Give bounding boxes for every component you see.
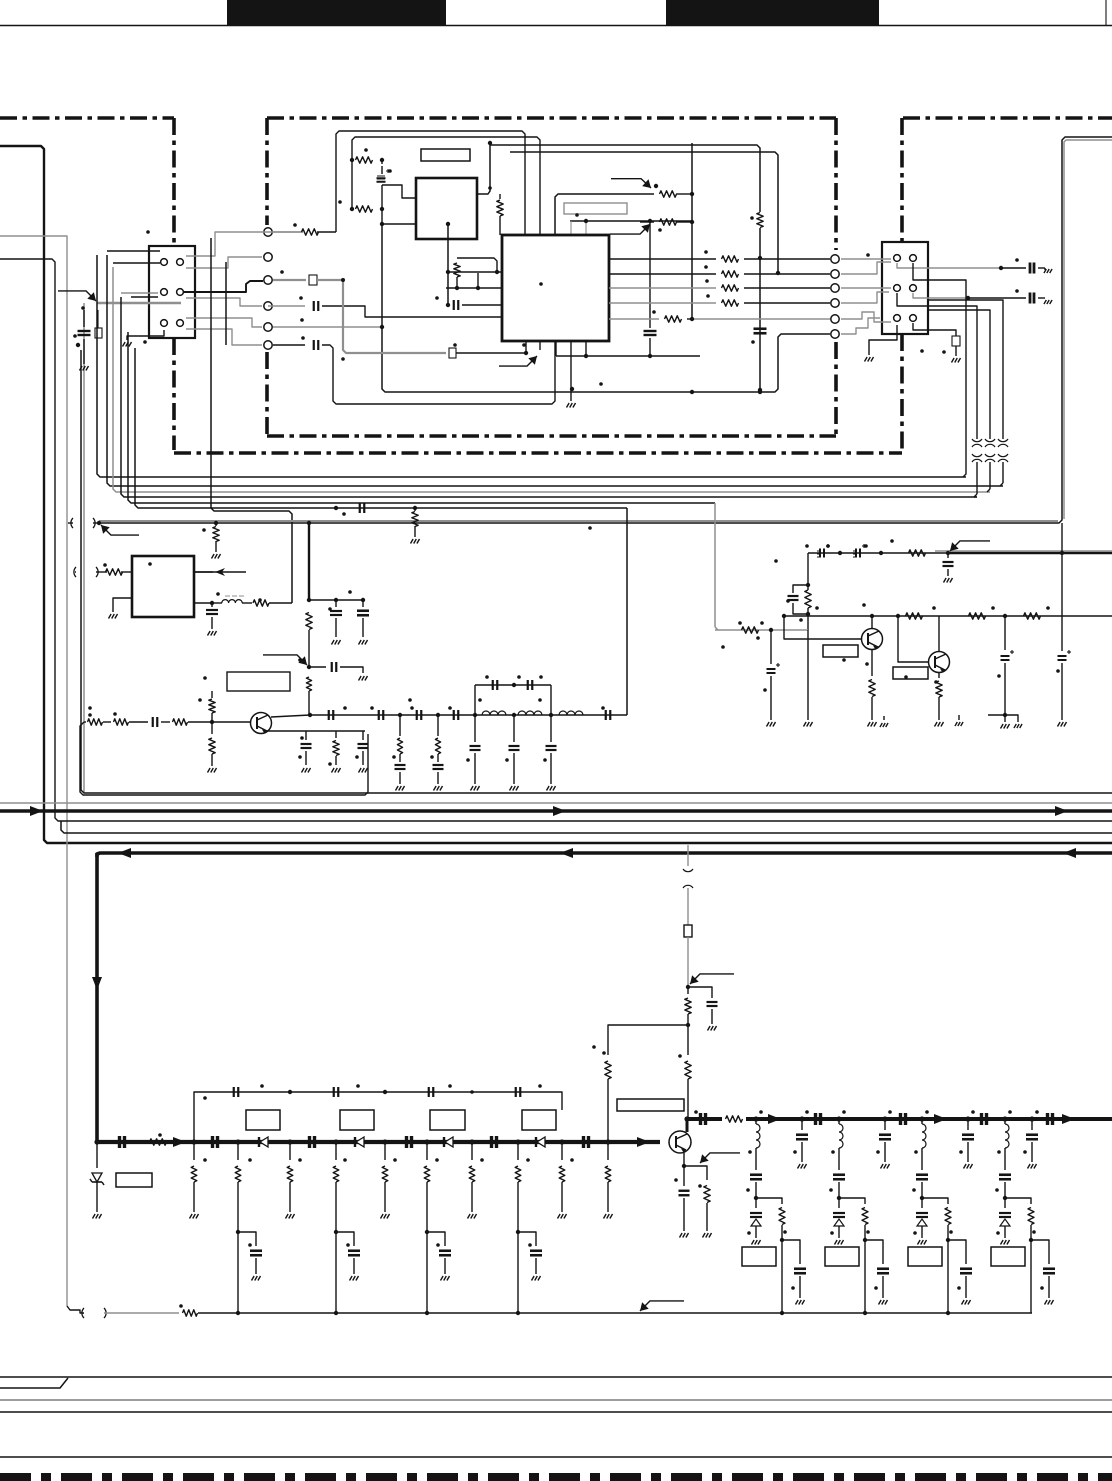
wire y803 gray <box>0 802 1112 804</box>
pol cap C_i1 <box>817 544 830 558</box>
wire q3 base <box>898 616 928 662</box>
cap C_k2 <box>310 1136 315 1148</box>
cap C_row6 <box>314 340 319 350</box>
bottom dash strip <box>0 1473 1112 1481</box>
dot i4 <box>738 621 773 632</box>
wire cn2 gnd3 <box>1038 297 1045 299</box>
dot c5 <box>446 303 450 307</box>
wire U2 row4 <box>609 300 830 306</box>
top right tick <box>1105 0 1107 25</box>
dot g1 <box>210 720 214 724</box>
shunt leg x194 <box>190 1142 199 1219</box>
cap C_n4 <box>1048 1113 1053 1125</box>
coil L_h1 <box>482 711 506 715</box>
dot e0 <box>103 563 107 567</box>
wire j3 gray <box>104 1312 179 1314</box>
wire cn2 w1 <box>841 259 891 274</box>
wire cn2 out2 <box>913 293 968 298</box>
CN1 pin 1 <box>161 259 168 266</box>
dot cn2b2 <box>1015 289 1019 293</box>
header bar right <box>666 0 879 25</box>
wire bias loop <box>605 1025 688 1140</box>
wire CN1 p5 <box>186 318 262 327</box>
cap C_k5 <box>584 1136 589 1148</box>
dot h4 <box>512 713 516 717</box>
wire cn2 gnd1 <box>869 325 897 355</box>
ground G_i9 <box>1058 722 1067 727</box>
IC U3 <box>132 556 194 617</box>
cap C_cn2b <box>1030 293 1034 304</box>
wire q1 emit <box>267 730 365 732</box>
dot a4 <box>380 207 384 211</box>
wire y1400 gray <box>0 1399 1112 1401</box>
wire y793 <box>81 350 1112 793</box>
resistor R_c1 <box>454 258 497 288</box>
wire par RC <box>807 553 809 585</box>
ground G_i6 <box>955 715 963 726</box>
dot ant3 <box>592 1045 596 1049</box>
bus B2 arrow1 <box>118 848 131 858</box>
wire q1 coll <box>271 715 310 717</box>
wire cn2 out2b <box>968 297 1026 299</box>
dot cn2c <box>942 350 946 354</box>
dot cn2a2 <box>1015 258 1019 262</box>
dot h6 <box>485 675 543 687</box>
wire row5r <box>692 318 830 320</box>
wire a <box>352 160 382 209</box>
feedthrough col L <box>264 228 272 349</box>
cap C_c <box>446 300 502 310</box>
dot d0 <box>214 521 218 525</box>
wire q2 base <box>784 616 861 639</box>
resistor R_x1 <box>653 191 692 197</box>
wire cn2 out3 <box>913 263 966 477</box>
dot n2 <box>836 1116 841 1121</box>
dot h3 <box>473 713 477 717</box>
dot k9 <box>559 1139 564 1144</box>
pol cap C_i6 <box>1058 650 1072 720</box>
bus chain arrowB <box>637 1137 650 1147</box>
cap C_k0 <box>120 1136 125 1148</box>
wire u1b <box>447 224 449 305</box>
label LBL_m4 <box>522 1110 556 1130</box>
dot c1 <box>446 270 450 274</box>
component X_tap <box>95 310 102 338</box>
dot c2 <box>495 270 499 274</box>
test arrow TP8 <box>950 541 990 551</box>
dot r3 <box>341 278 345 282</box>
test arrow TP11 <box>640 1301 684 1311</box>
coil L_h2 <box>518 711 542 715</box>
bus B2 corner <box>95 853 99 1142</box>
ground G_u2 <box>567 356 576 408</box>
wire W1 gray <box>99 140 1112 521</box>
tuning cell 2 <box>825 1110 889 1313</box>
resistor R_f1 <box>306 613 312 667</box>
coil L_h3 <box>559 711 583 715</box>
CN1 pin 2 <box>177 259 184 266</box>
wire y1377 <box>0 1376 1112 1378</box>
dot a1 <box>350 158 354 162</box>
dot i9 <box>997 674 1001 678</box>
ground G_g4 <box>208 768 217 773</box>
wire y194 <box>640 193 653 195</box>
bus out arrow3 <box>1062 1114 1075 1124</box>
diode D_k4 <box>536 1137 545 1147</box>
dot h0 <box>308 713 312 717</box>
wire thick gray tap <box>84 303 181 793</box>
cap C_tap <box>78 310 91 364</box>
cap C_n2 <box>901 1113 906 1125</box>
wire y1313 <box>198 1312 1032 1314</box>
dot n4 <box>919 1116 924 1121</box>
dot ant2 <box>686 1023 690 1027</box>
dot k7 <box>469 1139 474 1144</box>
connector CN1 <box>149 246 195 338</box>
wire v215 <box>215 523 217 552</box>
dot row2b <box>776 271 780 275</box>
wire CN1 rows <box>107 251 160 297</box>
IC U1 <box>416 178 477 239</box>
connector hook 3 <box>998 436 1008 486</box>
bus B1 <box>0 809 1112 813</box>
dot e1 <box>210 601 214 605</box>
dot c4 <box>476 286 480 290</box>
dot k2 <box>235 1139 240 1144</box>
wire u3 pin chain <box>194 602 212 604</box>
dot k3 <box>287 1139 292 1144</box>
wire cn2 drop3 <box>928 300 1003 436</box>
outer shield bottom <box>174 451 902 455</box>
wire W2b <box>510 152 778 273</box>
connector hook 1 <box>972 436 982 497</box>
wire u2 bpin1 <box>526 341 571 356</box>
cap C_n3 <box>982 1113 987 1125</box>
ground G_f3 <box>359 676 368 681</box>
cap C_n0 <box>701 1113 706 1125</box>
IC U1 label <box>421 149 470 161</box>
wire left in 1 <box>0 146 1112 843</box>
ground G_i2 <box>767 722 776 727</box>
shunt x514 <box>509 715 520 784</box>
dot x6 <box>690 220 694 224</box>
ground G_e1 <box>208 631 217 636</box>
cap C_g1 <box>153 717 170 727</box>
resistor R_g1 <box>114 719 149 725</box>
cap C_k1 <box>213 1136 218 1148</box>
dot row5 <box>690 317 694 321</box>
resistor R_x2 <box>640 219 692 225</box>
resistor R_f2 <box>306 677 311 715</box>
dot p0 <box>179 1304 183 1308</box>
ground G_h2 <box>434 786 443 791</box>
dot r3c <box>570 354 652 391</box>
wire cn2 w2 <box>841 288 891 303</box>
dot e2 <box>216 592 220 596</box>
wire row6b <box>322 341 555 404</box>
wire v808b <box>807 630 809 720</box>
shunt leg x472 <box>468 1142 477 1219</box>
dot k1 <box>191 1139 196 1144</box>
wire U1 right <box>477 145 490 194</box>
wire CN1 p3 thick <box>184 281 263 292</box>
ground G_f2 <box>359 640 368 645</box>
wire chain y715 <box>310 714 627 716</box>
bus B1 arrow2 <box>553 806 566 816</box>
CN1 pin 6 <box>177 320 184 327</box>
shunt leg x427 <box>424 1142 451 1315</box>
dot i7 <box>870 614 874 618</box>
ground G_i3 <box>804 722 813 727</box>
wire a3 <box>382 209 415 224</box>
wire hook join1 <box>974 496 977 498</box>
ground G_i4 <box>868 722 877 727</box>
resistor R_g4 <box>209 722 215 766</box>
shield box B right <box>834 118 838 436</box>
bus out arrow2 <box>934 1114 947 1124</box>
wire pi top <box>475 685 551 715</box>
resistor R_i3 <box>906 613 923 619</box>
parallel RC <box>788 585 812 630</box>
label LBL_x <box>564 203 627 214</box>
wire CN1 gnd <box>127 330 164 340</box>
wire row6 <box>273 344 305 346</box>
wire left in 2 gray <box>0 236 67 1306</box>
wire xtal box <box>555 194 640 235</box>
ground G_g6 <box>332 768 341 773</box>
test arrow TP7 <box>263 655 307 665</box>
wire CN1 p2 <box>186 257 262 268</box>
header rule <box>0 25 1112 27</box>
bus B1 arrow1 <box>30 806 43 816</box>
dot k10 <box>605 1139 610 1144</box>
CN2 pin 2 <box>910 255 917 262</box>
cap C_h2 <box>379 710 384 720</box>
wire y553 <box>808 552 950 554</box>
CN1 pin 3 <box>161 289 168 296</box>
shunt cap x968 <box>959 1110 975 1168</box>
cap C_f3 <box>309 662 363 673</box>
wire CN1 p4 <box>186 298 262 306</box>
cap C_i3 <box>943 553 954 576</box>
dot m3 <box>470 1090 474 1094</box>
bus chain <box>97 1140 660 1144</box>
shield box C top <box>903 116 1112 120</box>
resistor R_i5 <box>1024 613 1041 619</box>
shunt x475 <box>470 715 481 784</box>
label LBL_ant <box>617 1099 684 1111</box>
wire y392 dots <box>690 390 762 394</box>
label LBL_q3 <box>893 667 928 679</box>
ground G_h1 <box>396 786 405 791</box>
connector coax <box>683 869 693 888</box>
wire bundle v4 <box>121 297 977 497</box>
transistor Q3 <box>929 652 950 673</box>
ground G_cn2b <box>1044 269 1052 273</box>
wire U2 row3 <box>609 285 830 291</box>
shunt leg x518 <box>515 1142 542 1315</box>
wire u2l2 <box>446 287 502 289</box>
ground G_u3 <box>109 614 118 619</box>
resistor R_p0 <box>183 1310 198 1316</box>
wire y616 <box>784 615 1112 617</box>
wire bundle v1 <box>97 255 966 477</box>
dot m2 <box>383 1090 387 1094</box>
bus chain arrowA <box>173 1137 186 1147</box>
dot cn2a <box>999 266 1003 270</box>
label LBL_m1 <box>246 1110 280 1130</box>
dot g2 <box>198 698 202 702</box>
wire v1064 <box>1060 523 1064 651</box>
dot cn2b <box>966 296 970 300</box>
diode D_k1 <box>259 1137 268 1147</box>
bus out arrow1 <box>768 1114 781 1124</box>
dot f0 <box>307 521 311 525</box>
wire loop A <box>336 131 525 235</box>
shield box A top <box>0 116 174 120</box>
wire y553 thick <box>935 551 1112 553</box>
cap C_h7 <box>528 680 533 690</box>
test arrow TP3 <box>611 179 651 188</box>
wire y600 <box>309 599 363 601</box>
wire bundle v6 <box>135 348 627 508</box>
dot g3 <box>298 736 359 766</box>
dot a5 <box>380 222 384 226</box>
component X_g <box>449 348 456 358</box>
wire cn2 drop1 <box>897 293 977 436</box>
cap C_n1 <box>816 1113 821 1125</box>
label LBL_q2 <box>823 645 858 657</box>
wire U2 row1 <box>609 256 830 262</box>
dot U2 center <box>539 282 543 286</box>
cap C_m2 <box>334 1087 339 1097</box>
dot h5 <box>549 713 553 717</box>
cap C_m4 <box>516 1087 521 1097</box>
ground G_d2 <box>411 539 420 544</box>
shunt x400 <box>395 715 406 784</box>
wire chain up <box>626 508 628 715</box>
label LBL_t1 <box>227 672 290 691</box>
bus B2 <box>97 853 1112 857</box>
bus B1 arrow3 <box>1055 806 1068 816</box>
dot i1 <box>826 539 894 555</box>
ground G_g7 <box>359 768 368 773</box>
dot f2 <box>307 665 311 669</box>
dot i2 <box>946 551 950 555</box>
ground G_cn2d <box>952 358 961 363</box>
cap C_g6 <box>358 731 369 765</box>
wire CN1 out pins <box>186 232 303 256</box>
dot n0 <box>753 1116 758 1121</box>
cap C_f2 <box>357 600 369 637</box>
shield box A right <box>172 118 176 450</box>
ground G_g5 <box>302 768 311 773</box>
CN2 pin 3 <box>894 285 901 292</box>
dot i5 <box>763 688 767 692</box>
cap C_h4 <box>454 710 459 720</box>
wire row5 <box>273 326 382 328</box>
cap C_e1 <box>206 603 218 629</box>
cap C_k3 <box>407 1136 412 1148</box>
resistor R_a1 <box>356 157 373 163</box>
diode D_k2 <box>355 1137 364 1147</box>
wire q4 emit <box>683 1153 685 1164</box>
shunt leg x336 <box>333 1142 360 1315</box>
resistor R_e1 <box>100 569 132 575</box>
resistor R_d2 <box>412 512 418 527</box>
pol cap C_i2 <box>853 544 866 558</box>
dots chain <box>343 706 605 762</box>
label LBL_z <box>116 1173 152 1187</box>
cap C_h5 <box>606 710 611 720</box>
tuning cell 4 <box>991 1110 1055 1313</box>
transistor Q2 <box>862 629 883 650</box>
shunt leg x238 <box>235 1142 262 1315</box>
wire q2 coll <box>871 616 873 628</box>
test arrow TP6 <box>194 568 246 576</box>
wire bundle v3 gray <box>113 267 990 492</box>
dot a3 <box>350 207 354 211</box>
dot n5 <box>965 1116 970 1121</box>
test arrow TP1 <box>58 291 96 301</box>
dot x5 <box>690 192 694 196</box>
cap C_m3 <box>429 1087 434 1097</box>
cap C_g5 <box>301 731 312 765</box>
test arrow TP2 <box>610 224 650 234</box>
component X_ant <box>684 925 692 937</box>
tuning cell 1 <box>742 1110 806 1313</box>
wire a2 <box>382 185 416 198</box>
header bar left <box>227 0 446 25</box>
wire v921 <box>880 716 888 727</box>
wire U2 row2 <box>609 271 830 277</box>
ground G_h4 <box>510 786 519 791</box>
resistor R_g2 <box>173 719 251 725</box>
wire y715r <box>988 713 1007 717</box>
shunt cap x802 <box>793 1110 809 1168</box>
cap C_m1 <box>234 1087 239 1097</box>
label LBL_m2 <box>340 1110 374 1130</box>
shunt cap x885 <box>876 1110 892 1168</box>
dot f1 <box>307 598 365 602</box>
dot n3 <box>882 1116 887 1121</box>
ground G_f1 <box>332 640 341 645</box>
test arrow TP5 <box>101 525 139 535</box>
wire cn2 w3 <box>841 312 891 322</box>
wire v692 <box>691 143 693 319</box>
dot i6 <box>782 614 1007 618</box>
pol cap C_i4 <box>767 630 781 720</box>
dot i0 <box>838 551 842 555</box>
CN1 pin 5 <box>161 320 168 327</box>
shunt leg x608 <box>604 1142 613 1219</box>
dot k8 <box>515 1139 520 1144</box>
ground G_i7 <box>1001 715 1010 729</box>
cap C_d2 <box>360 503 365 513</box>
wire v650 <box>649 221 651 356</box>
coil L_e1 <box>212 596 252 603</box>
dot q4c <box>684 1116 689 1121</box>
component X_cn2 <box>952 336 960 356</box>
resistor R_g3 <box>209 691 215 722</box>
bus B2 arrow down <box>92 977 102 990</box>
dot i10 <box>721 544 1060 684</box>
jack J2 <box>74 567 100 577</box>
wire u2 bpin2 <box>540 341 586 356</box>
CN2 pin 5 <box>894 315 901 322</box>
wire CN1 p6 <box>186 329 262 345</box>
wire u3 out <box>194 571 213 573</box>
